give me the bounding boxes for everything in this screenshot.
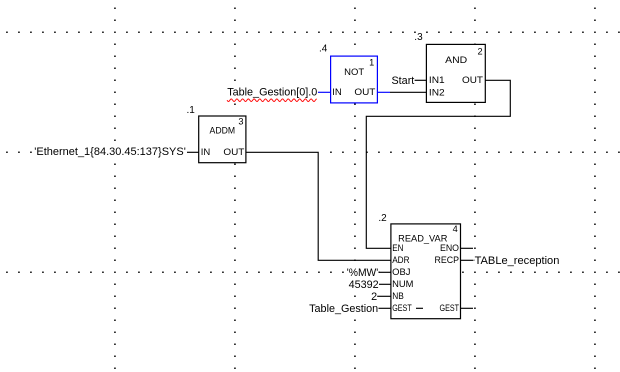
variable Table_Gestion[0].0 into NOT.IN xyxy=(227,87,318,98)
svg-text:NUM: NUM xyxy=(392,279,413,289)
svg-text:'%MW': '%MW' xyxy=(347,267,379,279)
wire: READ_VAR.RECP stub to TABLe_reception xyxy=(461,259,474,261)
wire: Start stub to AND.IN1 xyxy=(415,79,427,81)
wire: NOT.OUT to AND.IN2 xyxy=(390,91,426,93)
svg-text:OUT: OUT xyxy=(462,75,483,85)
function block READ_VAR (instance 4) xyxy=(391,224,461,319)
svg-text:NOT: NOT xyxy=(344,67,364,77)
svg-text:RECP: RECP xyxy=(435,255,460,265)
svg-text:.1: .1 xyxy=(187,105,196,116)
svg-text:2: 2 xyxy=(371,291,377,303)
svg-text:1: 1 xyxy=(369,57,374,67)
wire: AND.OUT to READ_VAR.EN xyxy=(366,80,510,248)
svg-text:4: 4 xyxy=(453,224,458,234)
svg-text:'Ethernet_1{84.30.45:137}SYS': 'Ethernet_1{84.30.45:137}SYS' xyxy=(34,146,186,158)
function block NOT (instance 1, selected blue) xyxy=(331,56,378,103)
wire: Ethernet literal stub to ADDM.IN xyxy=(187,151,199,153)
function block AND (instance 2) xyxy=(426,44,485,102)
wire: 2 literal stub to READ_VAR.NB xyxy=(377,295,391,297)
function block ADDM (instance 3) xyxy=(199,116,246,163)
svg-text:45392: 45392 xyxy=(349,279,379,291)
GEST in-out link dash xyxy=(416,307,423,309)
svg-text:IN: IN xyxy=(332,87,342,97)
svg-text:Start: Start xyxy=(391,75,414,87)
svg-text:READ_VAR: READ_VAR xyxy=(398,233,448,243)
svg-text:2: 2 xyxy=(477,47,482,57)
svg-text:AND: AND xyxy=(445,55,467,65)
svg-text:IN2: IN2 xyxy=(429,87,445,97)
variable Table_Gestion into READ_VAR.GEST xyxy=(309,304,379,315)
svg-text:NB: NB xyxy=(392,291,404,301)
wire: ADDM.OUT to READ_VAR.ADR xyxy=(246,152,391,260)
svg-text:EN: EN xyxy=(392,243,403,253)
variable TABLe_reception from READ_VAR.RECP xyxy=(475,256,561,267)
svg-text:Table_Gestion: Table_Gestion xyxy=(309,303,378,315)
svg-text:Table_Gestion[0].0: Table_Gestion[0].0 xyxy=(227,87,317,99)
svg-text:OBJ: OBJ xyxy=(392,267,410,277)
wire: READ_VAR.ENO output stub xyxy=(461,247,474,249)
svg-text:.2: .2 xyxy=(378,213,387,224)
svg-text:ENO: ENO xyxy=(440,243,459,253)
svg-text:.3: .3 xyxy=(414,32,423,43)
literal 45392 into READ_VAR.NUM xyxy=(348,280,379,291)
svg-text:ADR: ADR xyxy=(392,255,410,265)
wire: Table_Gestion stub to READ_VAR.GEST xyxy=(378,307,391,309)
wire: 45392 literal stub to READ_VAR.NUM xyxy=(379,283,391,285)
svg-text:GEST: GEST xyxy=(392,303,412,313)
svg-text:IN: IN xyxy=(201,147,211,157)
svg-text:ADDM: ADDM xyxy=(210,126,236,136)
svg-text:.4: .4 xyxy=(319,44,328,55)
svg-text:TABLe_reception: TABLe_reception xyxy=(475,255,560,267)
wire: Table_Gestion[0].0 stub to NOT.IN (blue) xyxy=(318,91,331,93)
svg-text:OUT: OUT xyxy=(223,147,244,157)
wire: '%MW' literal stub to READ_VAR.OBJ xyxy=(379,271,391,273)
svg-text:OUT: OUT xyxy=(354,87,375,97)
svg-text:3: 3 xyxy=(238,117,243,127)
wire: NOT.OUT stub (blue) xyxy=(377,91,390,93)
wire: READ_VAR.GEST output stub xyxy=(461,307,474,309)
red spell squiggle under Table_Gestion[0].0 xyxy=(227,99,317,102)
svg-text:GEST: GEST xyxy=(440,303,460,313)
literal Ethernet address into ADDM.IN xyxy=(33,147,187,159)
literal '%MW' into READ_VAR.OBJ xyxy=(346,268,379,279)
svg-text:IN1: IN1 xyxy=(429,75,445,85)
